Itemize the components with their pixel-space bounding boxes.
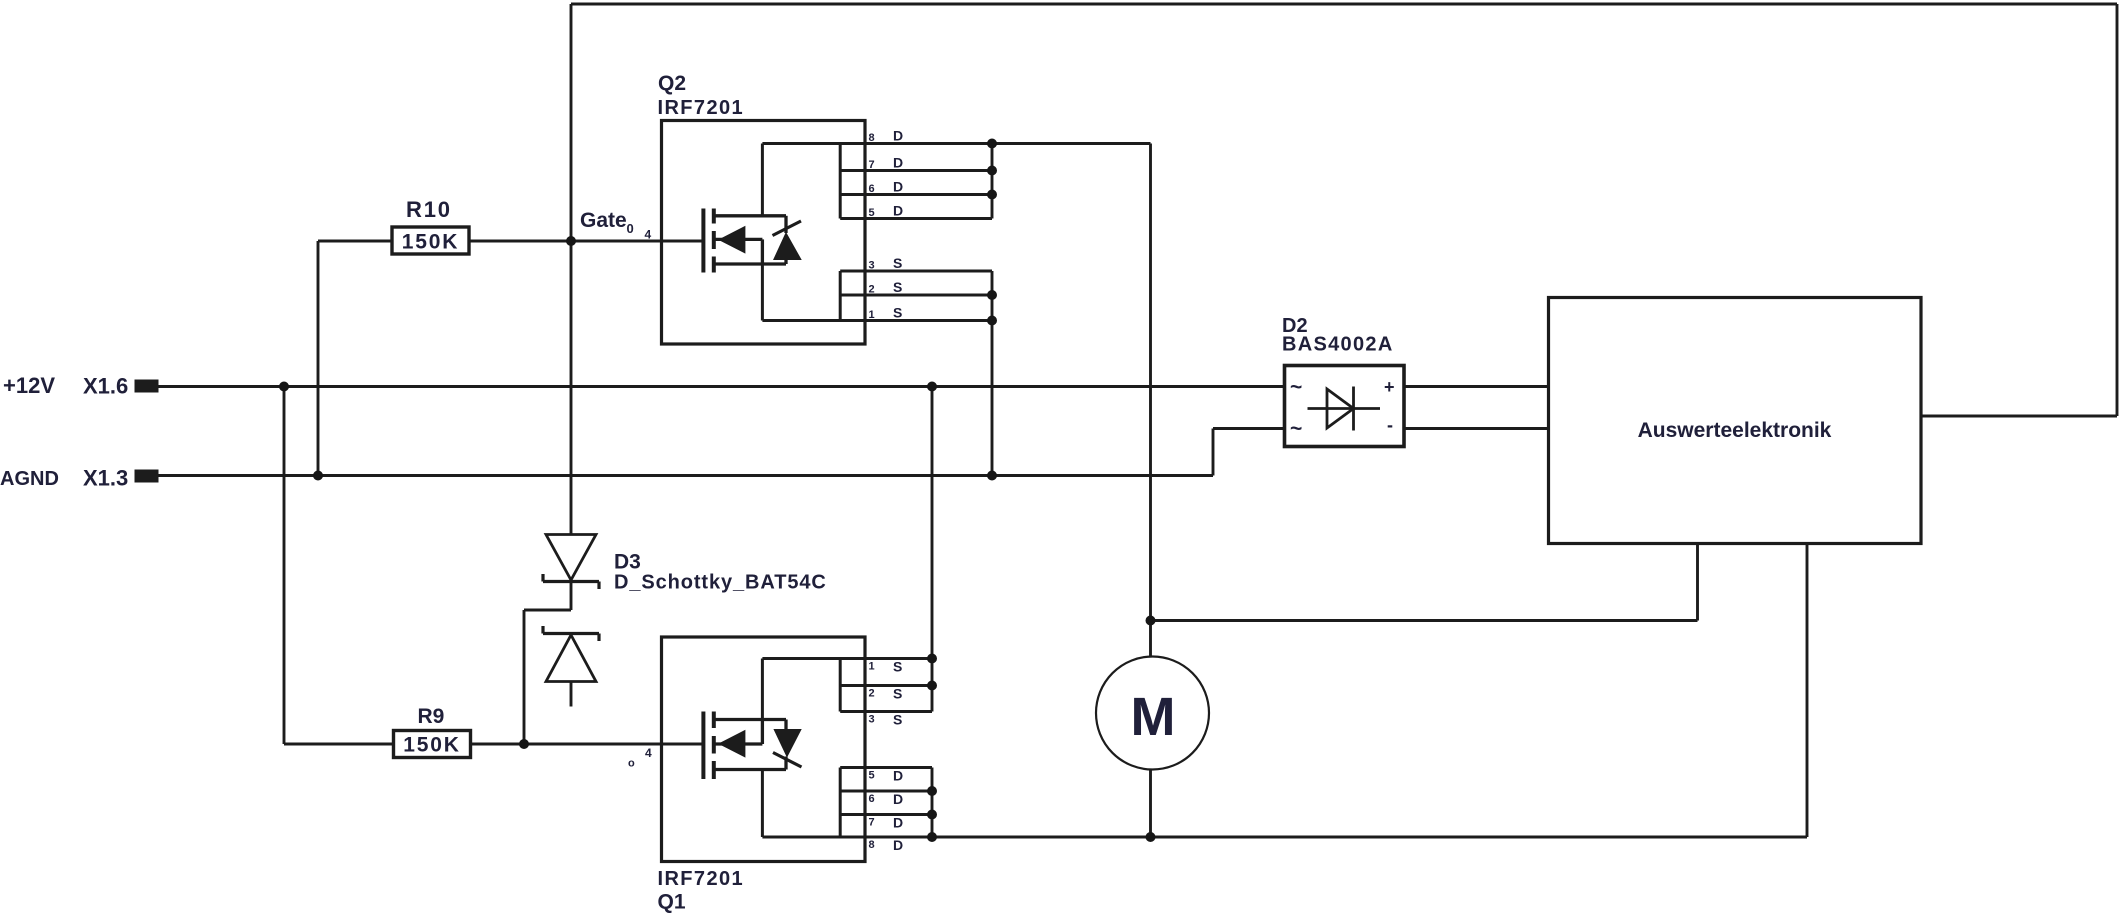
svg-text:+12V: +12V (3, 373, 55, 398)
svg-text:M: M (1131, 687, 1176, 747)
svg-text:8: 8 (869, 839, 875, 851)
svg-text:7: 7 (869, 817, 875, 829)
svg-text:S: S (893, 305, 902, 321)
svg-text:3: 3 (869, 714, 875, 726)
svg-text:S: S (893, 659, 902, 675)
svg-text:IRF7201: IRF7201 (658, 868, 745, 890)
svg-text:7: 7 (869, 159, 875, 171)
svg-text:D3: D3 (614, 551, 641, 574)
svg-text:2: 2 (869, 284, 875, 296)
svg-text:5: 5 (869, 770, 875, 782)
svg-text:~: ~ (1290, 418, 1302, 441)
svg-text:Q2: Q2 (658, 72, 686, 95)
svg-text:5: 5 (869, 207, 875, 219)
svg-text:4: 4 (645, 228, 652, 242)
svg-text:Q1: Q1 (658, 891, 686, 914)
svg-text:8: 8 (869, 132, 875, 144)
svg-text:R9: R9 (418, 705, 445, 728)
svg-text:~: ~ (1290, 376, 1302, 399)
svg-text:0: 0 (627, 221, 634, 236)
svg-text:D: D (893, 128, 903, 144)
svg-text:150K: 150K (403, 734, 460, 757)
svg-text:D: D (893, 837, 903, 853)
svg-text:3: 3 (869, 260, 875, 272)
svg-text:Gate: Gate (580, 209, 627, 232)
svg-text:4: 4 (645, 746, 652, 760)
svg-text:R10: R10 (406, 197, 452, 222)
svg-text:S: S (893, 712, 902, 728)
svg-text:X1.6: X1.6 (83, 374, 128, 399)
svg-text:X1.3: X1.3 (83, 466, 128, 491)
svg-text:D: D (893, 791, 903, 807)
svg-text:+: + (1384, 377, 1395, 397)
svg-text:D: D (893, 815, 903, 831)
svg-text:o: o (628, 758, 635, 770)
svg-text:S: S (893, 686, 902, 702)
svg-text:1: 1 (869, 309, 875, 321)
svg-text:IRF7201: IRF7201 (658, 97, 745, 119)
svg-text:BAS4002A: BAS4002A (1282, 334, 1394, 356)
svg-text:AGND: AGND (0, 468, 59, 490)
svg-text:S: S (893, 255, 902, 271)
svg-text:D: D (893, 203, 903, 219)
svg-text:D_Schottky_BAT54C: D_Schottky_BAT54C (614, 572, 827, 594)
svg-text:1: 1 (869, 661, 875, 673)
svg-text:D: D (893, 179, 903, 195)
svg-text:6: 6 (869, 793, 875, 805)
svg-text:Auswerteelektronik: Auswerteelektronik (1638, 419, 1832, 442)
svg-text:S: S (893, 279, 902, 295)
svg-text:150K: 150K (402, 231, 459, 254)
svg-text:2: 2 (869, 688, 875, 700)
svg-text:6: 6 (869, 183, 875, 195)
svg-text:D: D (893, 768, 903, 784)
svg-text:-: - (1387, 415, 1393, 435)
svg-text:D: D (893, 155, 903, 171)
